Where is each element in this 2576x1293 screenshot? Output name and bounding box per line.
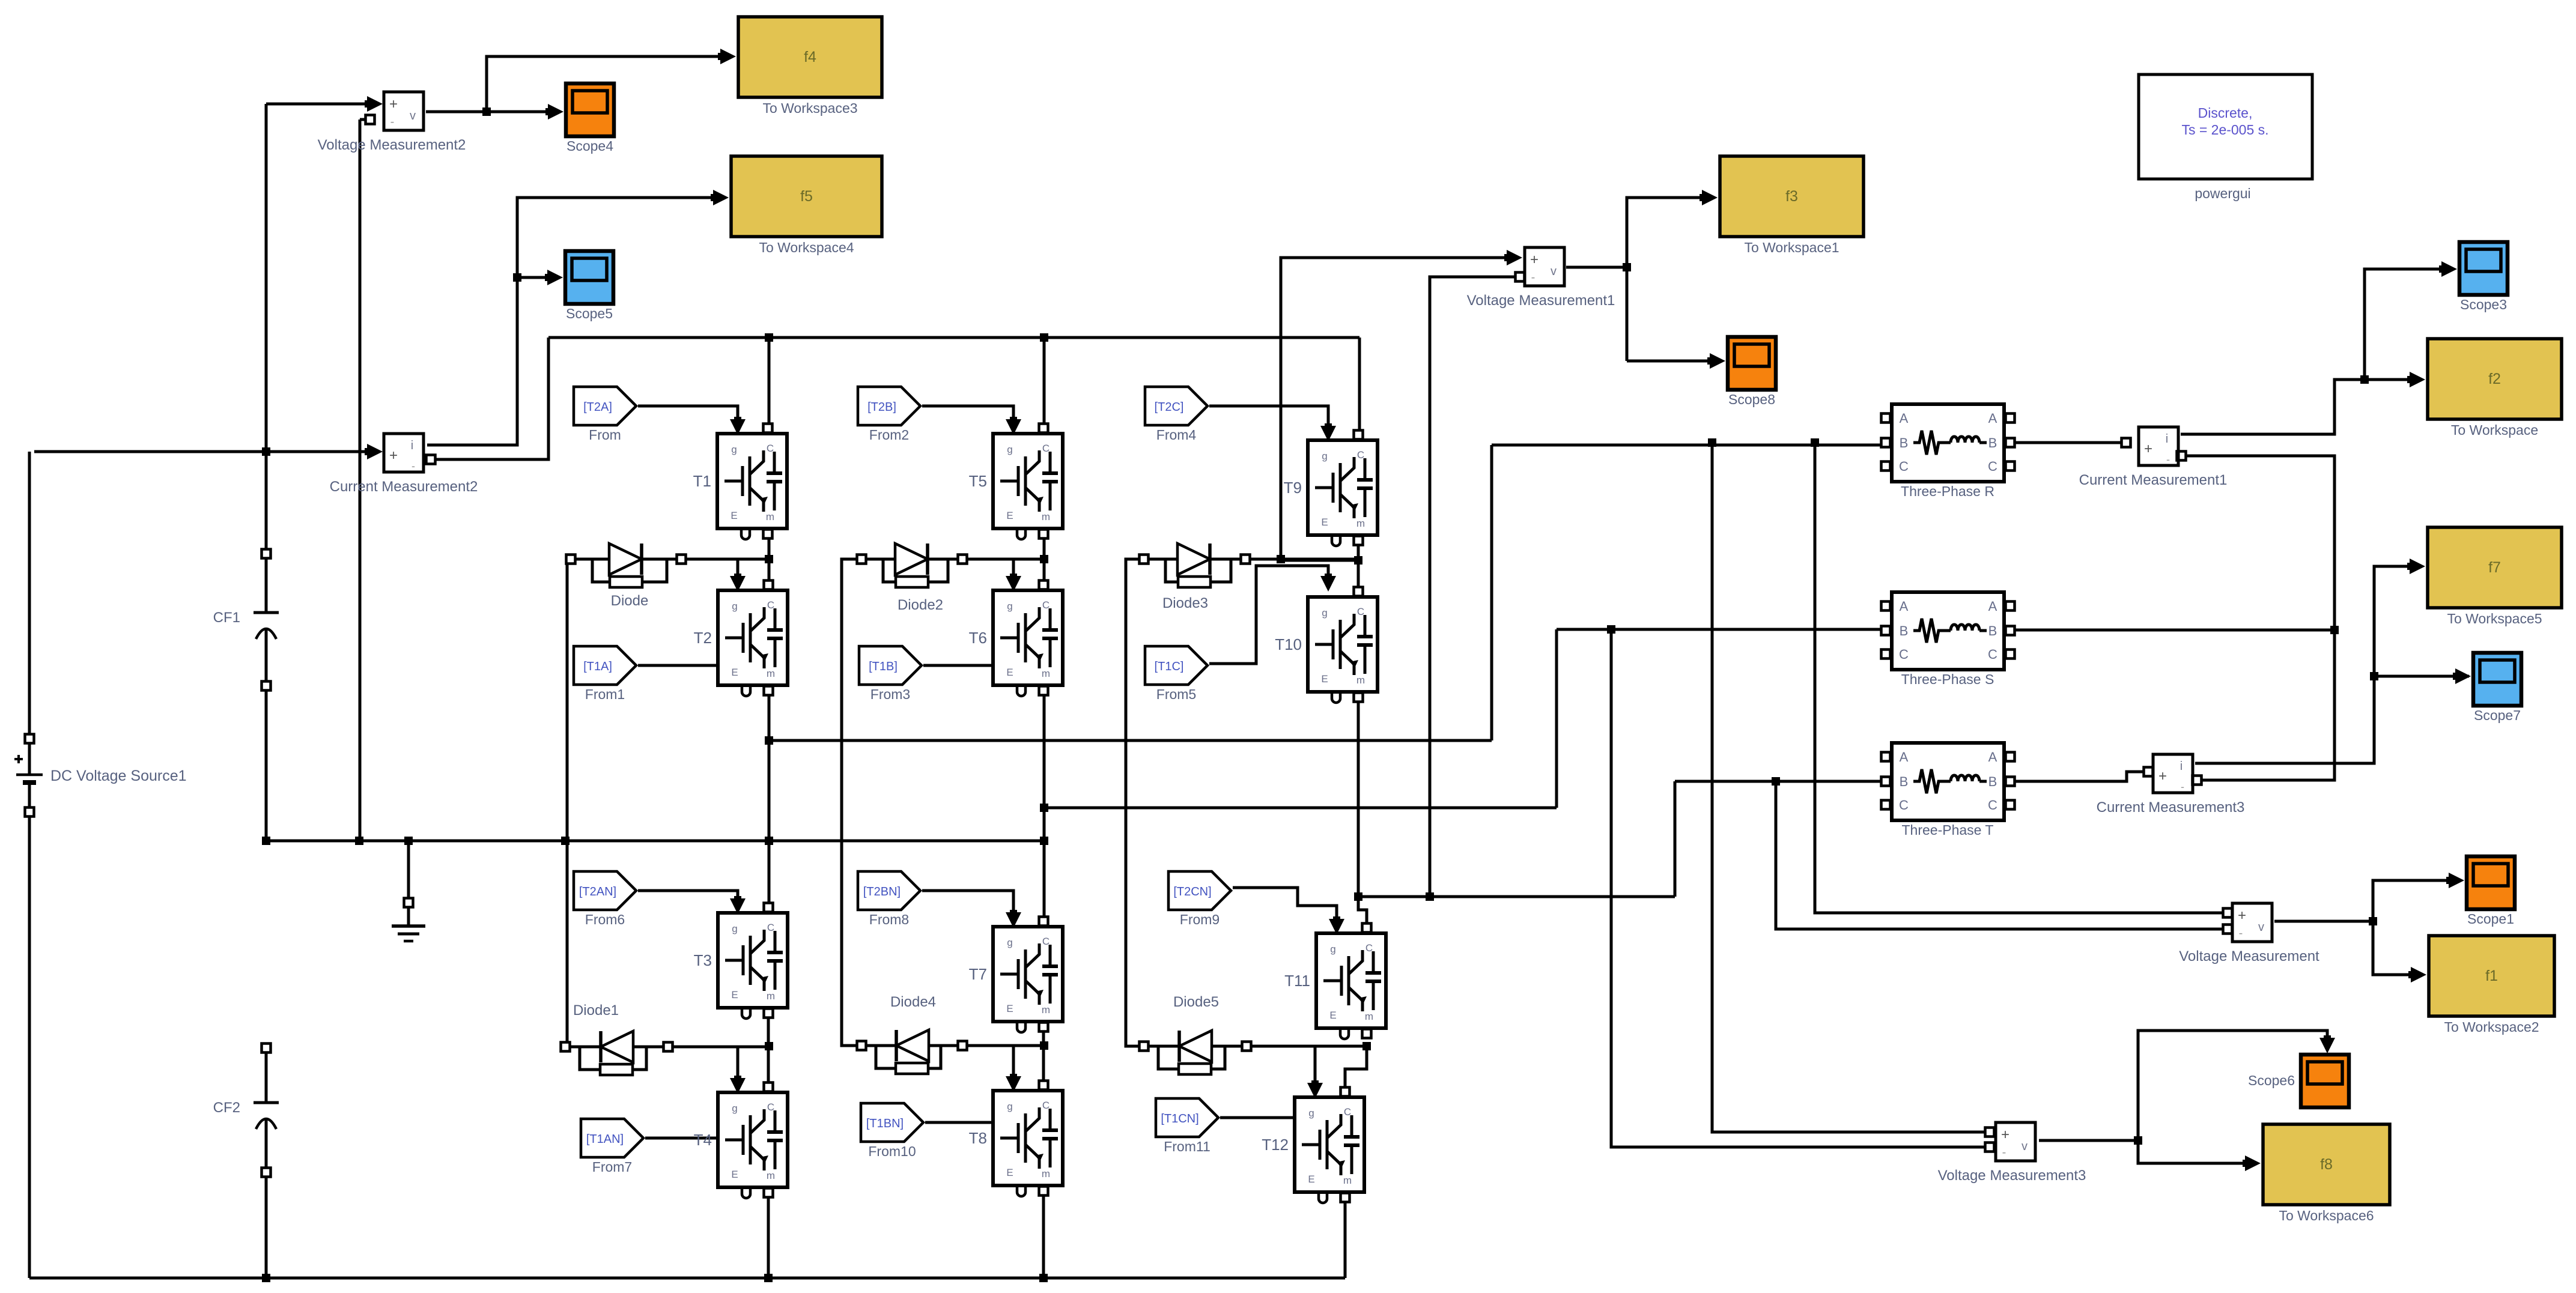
svg-text:Discrete,: Discrete, [2198, 105, 2253, 121]
svg-text:T8: T8 [969, 1129, 987, 1147]
svg-text:g: g [1007, 937, 1012, 948]
svg-text:Scope5: Scope5 [566, 306, 613, 321]
svg-text:m: m [767, 668, 775, 679]
svg-text:Scope8: Scope8 [1728, 392, 1775, 407]
svg-text:Voltage Measurement: Voltage Measurement [2179, 948, 2319, 964]
svg-text:i: i [411, 439, 413, 452]
svg-text:[T2C]: [T2C] [1155, 401, 1184, 414]
svg-text:+: + [389, 96, 398, 112]
svg-text:From8: From8 [869, 912, 909, 927]
svg-text:B: B [1900, 774, 1909, 789]
svg-text:Scope3: Scope3 [2460, 297, 2507, 312]
svg-text:g: g [1007, 601, 1012, 612]
svg-text:g: g [1007, 1101, 1012, 1112]
svg-text:From3: From3 [870, 686, 910, 702]
svg-text:Scope7: Scope7 [2474, 707, 2521, 723]
svg-text:From2: From2 [869, 427, 909, 443]
svg-text:C: C [1899, 647, 1909, 662]
svg-text:Diode1: Diode1 [573, 1002, 619, 1019]
svg-text:C: C [1988, 798, 1997, 813]
svg-text:From1: From1 [585, 686, 625, 702]
svg-text:g: g [1007, 444, 1012, 455]
svg-text:To Workspace5: To Workspace5 [2447, 611, 2542, 626]
svg-text:C: C [767, 1101, 774, 1113]
svg-text:-: - [2166, 453, 2170, 465]
svg-text:E: E [1329, 1010, 1336, 1021]
svg-text:f5: f5 [800, 188, 813, 205]
svg-text:A: A [1988, 599, 1997, 614]
svg-text:CF1: CF1 [213, 610, 240, 626]
svg-text:E: E [1308, 1173, 1314, 1185]
svg-text:C: C [1988, 459, 1997, 474]
svg-text:E: E [1321, 673, 1328, 685]
svg-text:-: - [390, 115, 395, 129]
svg-text:[T2BN]: [T2BN] [863, 885, 901, 898]
svg-text:f4: f4 [804, 49, 816, 65]
svg-text:[T2B]: [T2B] [867, 401, 896, 414]
svg-text:[T1BN]: [T1BN] [866, 1117, 904, 1130]
svg-text:To Workspace2: To Workspace2 [2444, 1019, 2539, 1035]
svg-text:m: m [1365, 1011, 1373, 1022]
svg-text:[T2A]: [T2A] [583, 401, 612, 414]
svg-text:E: E [731, 667, 738, 678]
svg-text:E: E [1321, 516, 1328, 528]
svg-text:From5: From5 [1156, 686, 1196, 702]
svg-text:f1: f1 [2485, 967, 2498, 984]
svg-text:C: C [1899, 798, 1909, 813]
svg-text:g: g [732, 1103, 737, 1114]
svg-text:T2: T2 [694, 629, 712, 647]
svg-text:[T1CN]: [T1CN] [1161, 1112, 1198, 1125]
svg-text:CF2: CF2 [213, 1100, 240, 1116]
svg-text:[T1C]: [T1C] [1155, 660, 1184, 673]
svg-text:Current Measurement1: Current Measurement1 [2079, 472, 2228, 488]
svg-text:B: B [1988, 623, 1997, 638]
svg-text:-: - [1531, 271, 1536, 284]
svg-text:From: From [589, 427, 621, 443]
svg-text:C: C [767, 922, 774, 933]
svg-text:To Workspace6: To Workspace6 [2279, 1208, 2374, 1223]
svg-text:E: E [1006, 1003, 1013, 1014]
svg-text:m: m [1042, 511, 1050, 522]
svg-text:+: + [389, 447, 398, 464]
svg-text:m: m [1343, 1175, 1352, 1186]
svg-text:[T1B]: [T1B] [869, 660, 898, 673]
svg-text:E: E [1006, 667, 1013, 678]
svg-text:A: A [1900, 411, 1909, 426]
svg-text:Current Measurement3: Current Measurement3 [2097, 799, 2245, 816]
svg-text:g: g [1308, 1107, 1314, 1119]
svg-text:To Workspace3: To Workspace3 [762, 100, 857, 116]
svg-text:T5: T5 [969, 472, 987, 490]
svg-text:Scope4: Scope4 [567, 138, 613, 154]
svg-text:DC Voltage Source1: DC Voltage Source1 [50, 768, 187, 784]
svg-text:v: v [1551, 265, 1557, 278]
svg-text:m: m [766, 511, 774, 522]
svg-text:C: C [1988, 647, 1997, 662]
svg-text:T11: T11 [1284, 972, 1310, 990]
svg-text:A: A [1988, 749, 1997, 765]
svg-text:g: g [732, 923, 737, 934]
svg-text:v: v [2258, 921, 2264, 934]
svg-text:Scope1: Scope1 [2467, 911, 2514, 927]
svg-text:From11: From11 [1164, 1139, 1211, 1154]
svg-text:C: C [1899, 459, 1909, 474]
svg-text:g: g [1330, 943, 1335, 955]
svg-text:f8: f8 [2320, 1156, 2333, 1173]
svg-text:i: i [2166, 432, 2168, 446]
svg-text:f3: f3 [1785, 188, 1798, 205]
svg-text:m: m [1356, 518, 1365, 529]
svg-text:A: A [1900, 599, 1909, 614]
svg-text:C: C [767, 443, 774, 454]
svg-text:v: v [410, 109, 416, 123]
svg-text:T10: T10 [1275, 635, 1302, 653]
svg-text:E: E [731, 510, 737, 521]
svg-text:powergui: powergui [2195, 186, 2250, 201]
svg-text:m: m [1042, 668, 1050, 679]
svg-text:Voltage Measurement2: Voltage Measurement2 [318, 137, 466, 153]
svg-text:Diode2: Diode2 [898, 597, 943, 613]
svg-text:+: + [2001, 1127, 2009, 1143]
svg-text:C: C [1357, 449, 1364, 461]
svg-text:T3: T3 [694, 951, 712, 969]
svg-text:C: C [767, 599, 774, 611]
svg-text:g: g [732, 601, 737, 612]
svg-text:+: + [2144, 441, 2152, 457]
svg-text:From4: From4 [1156, 427, 1197, 443]
svg-text:m: m [1356, 674, 1365, 686]
svg-text:Three-Phase R: Three-Phase R [1901, 483, 1994, 499]
svg-text:g: g [1322, 607, 1327, 619]
svg-text:T1: T1 [693, 472, 711, 490]
svg-text:Voltage Measurement1: Voltage Measurement1 [1467, 292, 1615, 309]
svg-text:C: C [1042, 443, 1050, 454]
svg-text:B: B [1900, 435, 1909, 450]
svg-text:[T1AN]: [T1AN] [586, 1133, 624, 1146]
svg-text:To Workspace4: To Workspace4 [759, 240, 854, 255]
svg-text:m: m [1042, 1004, 1050, 1016]
svg-text:From10: From10 [868, 1143, 916, 1159]
svg-text:To Workspace: To Workspace [2451, 422, 2538, 438]
svg-text:m: m [1042, 1168, 1050, 1179]
svg-text:[T2CN]: [T2CN] [1173, 885, 1211, 898]
svg-text:+: + [2158, 768, 2167, 784]
svg-text:i: i [2180, 760, 2183, 773]
svg-text:Three-Phase S: Three-Phase S [1901, 671, 1994, 687]
svg-text:Voltage Measurement3: Voltage Measurement3 [1938, 1167, 2086, 1184]
svg-text:B: B [1988, 774, 1997, 789]
svg-text:m: m [767, 1170, 775, 1181]
svg-text:f7: f7 [2488, 559, 2501, 576]
svg-text:Three-Phase T: Three-Phase T [1902, 822, 1994, 838]
svg-text:A: A [1900, 749, 1909, 765]
svg-text:From7: From7 [592, 1159, 632, 1175]
svg-text:-: - [2239, 927, 2243, 940]
svg-text:T12: T12 [1262, 1136, 1289, 1154]
svg-text:C: C [1042, 1100, 1050, 1111]
svg-text:+: + [2238, 907, 2246, 924]
svg-text:-: - [2181, 781, 2184, 793]
svg-text:Diode: Diode [611, 593, 649, 609]
svg-text:E: E [1006, 510, 1013, 521]
svg-text:C: C [1042, 599, 1050, 611]
svg-text:Diode4: Diode4 [890, 994, 936, 1010]
svg-text:[T2AN]: [T2AN] [579, 885, 616, 898]
svg-text:From9: From9 [1180, 912, 1220, 927]
svg-text:-: - [412, 460, 415, 472]
svg-text:Scope6: Scope6 [2248, 1073, 2295, 1088]
svg-text:+: + [1530, 252, 1539, 268]
svg-text:C: C [1357, 606, 1364, 617]
svg-text:f2: f2 [2488, 371, 2501, 387]
svg-text:T4: T4 [694, 1131, 712, 1149]
svg-text:v: v [2022, 1140, 2028, 1153]
svg-text:From6: From6 [585, 912, 625, 927]
svg-text:Diode3: Diode3 [1162, 595, 1208, 611]
svg-text:C: C [1042, 936, 1050, 947]
svg-text:[T1A]: [T1A] [583, 660, 612, 673]
svg-text:m: m [767, 990, 775, 1002]
svg-text:Current Measurement2: Current Measurement2 [330, 479, 478, 495]
svg-text:g: g [731, 444, 737, 455]
svg-text:g: g [1322, 450, 1327, 462]
svg-text:T6: T6 [969, 629, 987, 647]
svg-text:T7: T7 [969, 965, 987, 983]
svg-text:E: E [1006, 1167, 1013, 1178]
svg-text:B: B [1988, 435, 1997, 450]
svg-text:T9: T9 [1284, 479, 1302, 497]
svg-text:C: C [1365, 942, 1373, 954]
svg-text:Ts = 2e-005 s.: Ts = 2e-005 s. [2181, 122, 2268, 138]
svg-text:Diode5: Diode5 [1173, 994, 1219, 1010]
svg-text:C: C [1344, 1106, 1351, 1118]
svg-text:E: E [731, 989, 738, 1001]
svg-text:To Workspace1: To Workspace1 [1744, 240, 1839, 255]
svg-text:E: E [731, 1169, 738, 1180]
svg-text:A: A [1988, 411, 1997, 426]
svg-text:-: - [2002, 1146, 2006, 1159]
svg-text:B: B [1900, 623, 1909, 638]
